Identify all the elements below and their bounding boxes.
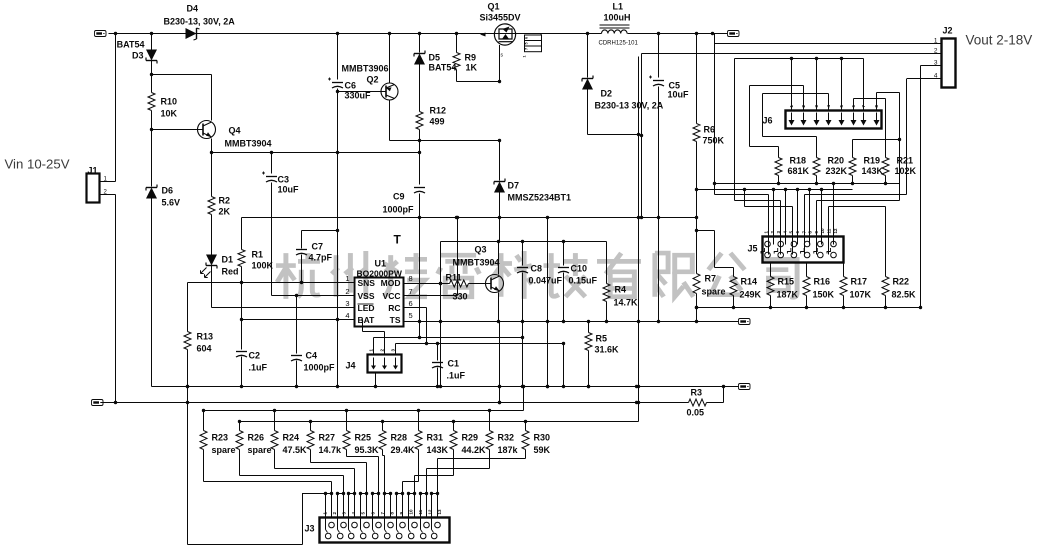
svg-text:D5: D5 — [429, 53, 441, 63]
svg-text:681K: 681K — [788, 166, 810, 176]
svg-text:R3: R3 — [691, 388, 703, 398]
svg-text:J6: J6 — [762, 116, 772, 126]
svg-text:J4: J4 — [345, 361, 355, 371]
svg-text:U1: U1 — [375, 259, 387, 269]
svg-text:J5: J5 — [747, 244, 757, 254]
svg-text:143K: 143K — [427, 445, 449, 455]
svg-text:5: 5 — [409, 311, 413, 320]
svg-text:R21: R21 — [897, 156, 914, 166]
svg-text:232K: 232K — [826, 166, 848, 176]
svg-text:8: 8 — [409, 274, 413, 283]
svg-text:CDRH125-101: CDRH125-101 — [599, 41, 639, 47]
svg-text:13: 13 — [437, 509, 442, 515]
svg-text:604: 604 — [197, 344, 212, 354]
svg-text:C6: C6 — [345, 81, 357, 91]
svg-text:5.6V: 5.6V — [162, 198, 181, 208]
svg-text:R7: R7 — [705, 274, 717, 284]
svg-text:10: 10 — [820, 228, 825, 234]
svg-text:R13: R13 — [197, 332, 214, 342]
svg-text:R26: R26 — [248, 433, 265, 443]
svg-text:R10: R10 — [161, 97, 178, 107]
svg-text:499: 499 — [430, 117, 445, 127]
svg-text:44.2K: 44.2K — [462, 445, 487, 455]
svg-text:249K: 249K — [740, 290, 762, 300]
svg-text:1000pF: 1000pF — [382, 205, 414, 215]
svg-text:95.3K: 95.3K — [355, 445, 380, 455]
svg-text:.1uF: .1uF — [249, 363, 268, 373]
svg-text:3: 3 — [345, 299, 349, 308]
svg-text:10uF: 10uF — [668, 90, 690, 100]
svg-text:R6: R6 — [704, 125, 716, 135]
svg-text:Q1: Q1 — [488, 2, 500, 12]
svg-text:D7: D7 — [508, 181, 520, 191]
svg-text:D1: D1 — [222, 255, 234, 265]
svg-text:VSS: VSS — [358, 291, 375, 301]
svg-text:BAT: BAT — [358, 315, 376, 325]
svg-text:MMSZ5234BT1: MMSZ5234BT1 — [508, 193, 572, 203]
svg-text:187K: 187K — [777, 290, 799, 300]
svg-text:C9: C9 — [393, 192, 405, 202]
svg-text:MMBT3904: MMBT3904 — [225, 139, 272, 149]
svg-text:102K: 102K — [895, 166, 917, 176]
svg-text:82.5K: 82.5K — [892, 290, 917, 300]
svg-text:R16: R16 — [814, 277, 831, 287]
svg-text:4: 4 — [345, 311, 349, 320]
svg-text:7: 7 — [525, 48, 529, 50]
svg-text:C2: C2 — [249, 351, 261, 361]
svg-text:0.047uF: 0.047uF — [529, 276, 563, 286]
svg-text:10uF: 10uF — [278, 185, 300, 195]
svg-text:BAT54: BAT54 — [429, 63, 457, 73]
svg-text:Q4: Q4 — [229, 126, 241, 136]
svg-text:R15: R15 — [778, 277, 795, 287]
svg-text:B230-13, 30V, 2A: B230-13, 30V, 2A — [164, 17, 236, 27]
svg-text:47.5K: 47.5K — [283, 445, 308, 455]
svg-text:Red: Red — [222, 267, 239, 277]
svg-text:C1: C1 — [448, 359, 460, 369]
svg-text:B230-13 30V, 2A: B230-13 30V, 2A — [595, 101, 664, 111]
svg-text:R1: R1 — [252, 250, 264, 260]
svg-text:R30: R30 — [534, 433, 551, 443]
svg-text:Q2: Q2 — [367, 75, 379, 85]
svg-text:Vout 2-18V: Vout 2-18V — [966, 33, 1033, 48]
svg-text:C8: C8 — [531, 264, 543, 274]
svg-text:29.4K: 29.4K — [391, 445, 416, 455]
svg-text:100K: 100K — [252, 261, 274, 271]
svg-text:C7: C7 — [312, 242, 324, 252]
svg-text:R31: R31 — [427, 433, 444, 443]
svg-text:R2: R2 — [219, 196, 231, 206]
svg-text:D6: D6 — [162, 186, 174, 196]
svg-text:BQ2000PW: BQ2000PW — [357, 269, 403, 279]
svg-text:7: 7 — [409, 287, 413, 296]
svg-text:12: 12 — [428, 509, 433, 515]
svg-text:SNS: SNS — [358, 278, 376, 288]
svg-text:187k: 187k — [498, 445, 519, 455]
svg-text:31.6K: 31.6K — [595, 345, 620, 355]
svg-text:10K: 10K — [161, 109, 178, 119]
svg-text:.1uF: .1uF — [447, 371, 466, 381]
svg-text:R5: R5 — [596, 334, 608, 344]
svg-text:5: 5 — [525, 42, 529, 44]
svg-text:Vin 10-25V: Vin 10-25V — [5, 157, 70, 172]
svg-text:L1: L1 — [613, 2, 624, 12]
svg-text:4.7pF: 4.7pF — [309, 253, 333, 263]
svg-text:1000pF: 1000pF — [304, 363, 336, 373]
svg-text:J2: J2 — [943, 26, 953, 36]
svg-text:11: 11 — [418, 509, 423, 514]
svg-text:R18: R18 — [790, 156, 807, 166]
svg-text:2: 2 — [345, 287, 349, 296]
svg-text:11: 11 — [827, 228, 832, 233]
svg-text:C3: C3 — [278, 175, 290, 185]
svg-text:1K: 1K — [466, 63, 478, 73]
svg-text:R32: R32 — [498, 433, 515, 443]
svg-text:D4: D4 — [187, 4, 199, 14]
svg-text:R11: R11 — [446, 273, 462, 283]
svg-text:MMBT3906: MMBT3906 — [342, 64, 389, 74]
svg-text:107K: 107K — [850, 290, 872, 300]
svg-text:R17: R17 — [851, 277, 868, 287]
svg-text:D3: D3 — [132, 51, 144, 61]
svg-text:1: 1 — [345, 274, 349, 283]
svg-text:C10: C10 — [571, 264, 588, 274]
svg-text:59K: 59K — [534, 445, 551, 455]
svg-text:150K: 150K — [813, 290, 835, 300]
svg-text:Q3: Q3 — [475, 245, 487, 255]
svg-text:750K: 750K — [703, 136, 725, 146]
svg-text:BAT54: BAT54 — [117, 40, 145, 50]
svg-text:MOD: MOD — [381, 278, 401, 288]
svg-text:Si3455DV: Si3455DV — [480, 13, 521, 23]
svg-text:R9: R9 — [465, 53, 477, 63]
svg-text:R4: R4 — [615, 285, 627, 295]
svg-text:R14: R14 — [741, 277, 758, 287]
svg-text:spare: spare — [212, 445, 236, 455]
svg-text:MMBT3904: MMBT3904 — [453, 258, 500, 268]
svg-text:C4: C4 — [306, 351, 318, 361]
svg-text:1: 1 — [523, 55, 527, 57]
svg-text:100uH: 100uH — [604, 13, 631, 23]
svg-text:R19: R19 — [864, 156, 881, 166]
svg-text:D2: D2 — [601, 89, 613, 99]
svg-text:14.7k: 14.7k — [319, 445, 343, 455]
svg-text:J1: J1 — [88, 166, 98, 176]
svg-text:R25: R25 — [355, 433, 372, 443]
svg-text:330: 330 — [453, 292, 468, 302]
svg-text:10: 10 — [408, 509, 413, 515]
svg-text:0.15uF: 0.15uF — [569, 276, 598, 286]
svg-text:6: 6 — [409, 299, 413, 308]
svg-text:LED: LED — [358, 303, 375, 313]
svg-text:R23: R23 — [212, 433, 229, 443]
svg-text:2K: 2K — [219, 207, 231, 217]
svg-text:J3: J3 — [304, 524, 314, 534]
svg-text:RC: RC — [388, 303, 400, 313]
svg-text:R29: R29 — [462, 433, 479, 443]
svg-text:R22: R22 — [893, 277, 910, 287]
svg-text:14.7K: 14.7K — [614, 298, 639, 308]
svg-text:R20: R20 — [828, 156, 845, 166]
svg-text:R12: R12 — [430, 106, 447, 116]
svg-text:R28: R28 — [391, 433, 408, 443]
svg-text:R24: R24 — [283, 433, 300, 443]
svg-text:0.05: 0.05 — [687, 408, 705, 418]
svg-text:T: T — [394, 233, 402, 247]
svg-text:143K: 143K — [862, 166, 884, 176]
svg-text:R27: R27 — [319, 433, 336, 443]
svg-text:12: 12 — [833, 228, 838, 234]
svg-text:6: 6 — [525, 37, 529, 39]
svg-text:spare: spare — [702, 287, 726, 297]
svg-text:TS: TS — [390, 315, 401, 325]
svg-text:VCC: VCC — [383, 291, 401, 301]
svg-text:spare: spare — [248, 445, 272, 455]
